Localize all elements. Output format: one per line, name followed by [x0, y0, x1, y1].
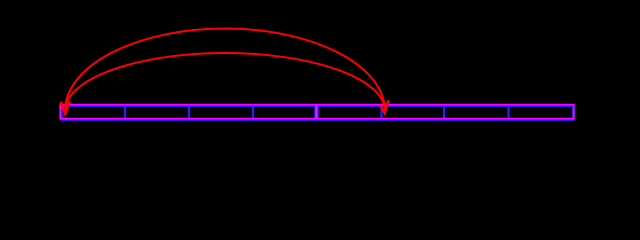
- left half box (magenta): [60, 105, 316, 119]
- lower arc (short half-ellipse): [65, 53, 385, 111]
- cell divider 5: [380, 105, 382, 120]
- right arrowhead: [380, 100, 388, 113]
- cell divider 2: [188, 105, 190, 120]
- red arcs: [61, 28, 389, 113]
- upper arc (tall half-ellipse): [65, 28, 385, 111]
- cell divider 4 (center, blue underlay): [314, 105, 318, 120]
- cell divider 1: [124, 105, 126, 120]
- left arrowhead: [61, 102, 70, 114]
- cell divider 6: [443, 105, 445, 120]
- cell divider 7: [507, 105, 509, 120]
- cell divider 3: [252, 105, 254, 120]
- right half box (magenta): [317, 105, 574, 119]
- array cell row (blue): [62, 105, 573, 120]
